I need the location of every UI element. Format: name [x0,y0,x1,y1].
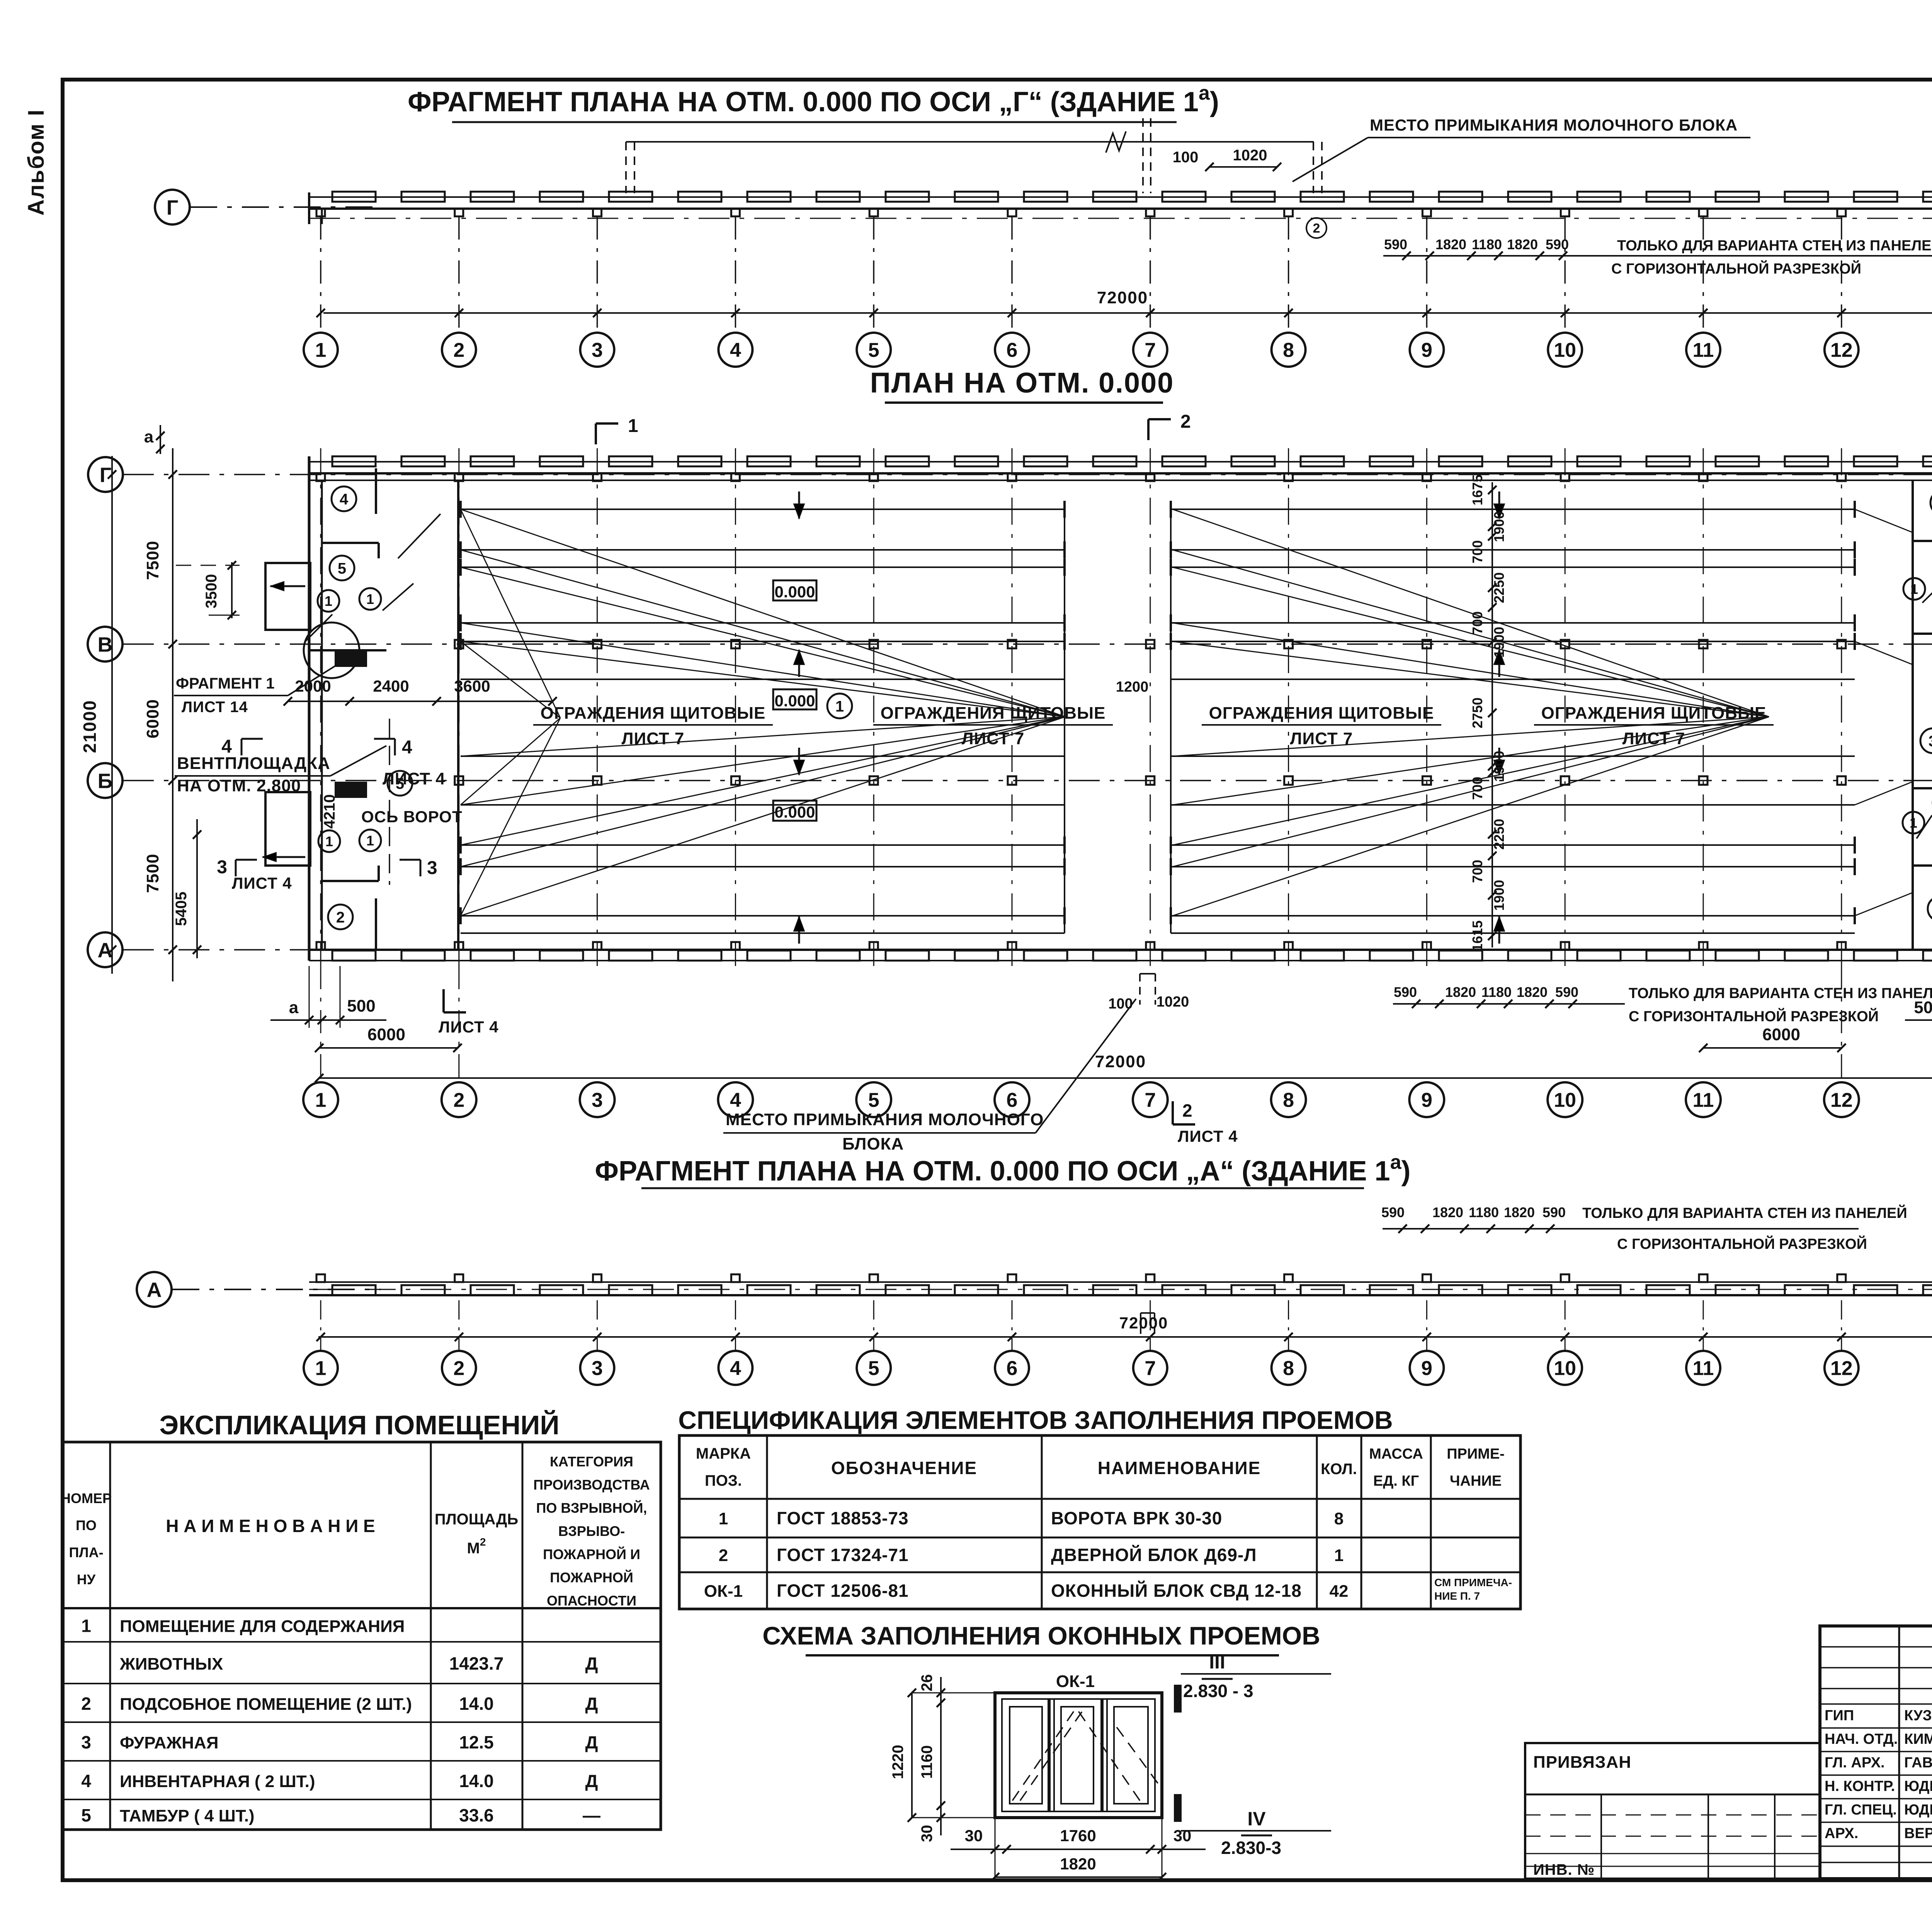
svg-text:1: 1 [835,698,844,715]
svg-text:8: 8 [1283,1089,1294,1112]
svg-text:8: 8 [1334,1509,1344,1528]
svg-text:6000: 6000 [1762,1025,1800,1044]
svg-text:2000: 2000 [295,677,331,695]
svg-text:2400: 2400 [373,677,409,695]
bottom circles 1-13 [303,1082,338,1117]
svg-text:СМ ПРИМЕЧА-: СМ ПРИМЕЧА- [1434,1577,1512,1588]
svg-text:8: 8 [1283,339,1294,362]
svg-text:III: III [1209,1651,1225,1673]
bottom fragment wall strip [309,1281,1932,1283]
svg-text:30: 30 [965,1827,983,1845]
svg-text:1: 1 [1910,815,1917,831]
stall partition lines left half [461,509,1065,510]
svg-text:100: 100 [1173,149,1199,166]
svg-text:С ГОРИЗОНТАЛЬНОЙ РАЗРЕЗКОЙ: С ГОРИЗОНТАЛЬНОЙ РАЗРЕЗКОЙ [1629,1007,1879,1025]
svg-text:1675: 1675 [1469,474,1485,505]
specification table [679,1435,1520,1609]
svg-text:7500: 7500 [143,541,162,580]
svg-text:КУЗНЕЦОВ: КУЗНЕЦОВ [1904,1708,1932,1724]
svg-text:ИНВ. №: ИНВ. № [1533,1861,1595,1878]
svg-text:НА ОТМ. 2.800: НА ОТМ. 2.800 [177,776,301,795]
bottom fragment axis under strip [309,1289,1932,1290]
svg-text:ОСЬ ВОРОТ: ОСЬ ВОРОТ [361,808,463,826]
svg-text:ОГРАЖДЕНИЯ ЩИТОВЫЕ: ОГРАЖДЕНИЯ ЩИТОВЫЕ [881,704,1106,723]
column squares axis B [455,776,463,785]
svg-text:4: 4 [730,1357,741,1380]
svg-text:1900: 1900 [1491,511,1507,542]
svg-text:ПОЗ.: ПОЗ. [705,1472,742,1489]
svg-text:1180: 1180 [1469,1204,1499,1220]
svg-text:ОГРАЖДЕНИЯ ЩИТОВЫЕ: ОГРАЖДЕНИЯ ЩИТОВЫЕ [1209,704,1434,723]
svg-text:ЖИВОТНЫХ: ЖИВОТНЫХ [119,1655,223,1673]
svg-text:ГЛ. АРХ.: ГЛ. АРХ. [1825,1755,1885,1771]
svg-text:А: А [147,1278,162,1301]
svg-text:ЛИСТ 4: ЛИСТ 4 [1178,1127,1238,1145]
svg-text:ГАВРИЛОВ: ГАВРИЛОВ [1904,1755,1932,1771]
svg-text:30: 30 [1173,1827,1192,1845]
explication table [63,1442,661,1830]
bottom fragment dim 72000 [318,1336,1932,1338]
left wall protrusions (tambours) [265,563,310,630]
svg-text:30: 30 [918,1825,935,1842]
svg-text:12: 12 [1830,1357,1853,1380]
axis A circle (bottom fragment) [137,1272,172,1307]
svg-text:a: a [289,998,299,1017]
svg-text:ЛИСТ 4: ЛИСТ 4 [439,1018,499,1036]
svg-text:3: 3 [81,1732,91,1752]
svg-text:0.000: 0.000 [774,692,815,710]
svg-text:ВЕРХОВСКИЙ: ВЕРХОВСКИЙ [1904,1824,1932,1842]
svg-text:2: 2 [719,1546,728,1565]
svg-text:МЕСТО ПРИМЫКАНИЯ МОЛОЧНОГО БЛО: МЕСТО ПРИМЫКАНИЯ МОЛОЧНОГО БЛОКА [1370,116,1738,134]
title block main [1820,1626,1932,1879]
central cross passage verticals [1064,509,1065,933]
column squares axis V [455,640,463,648]
svg-text:ЕД. КГ: ЕД. КГ [1373,1473,1419,1489]
section cut marks top [595,423,597,444]
stall partition lines right half [1171,509,1855,510]
svg-text:1: 1 [366,591,374,607]
svg-text:1: 1 [315,1089,327,1112]
top fragment left corner [308,192,310,224]
axis A line (bottom fragment) [172,1289,381,1290]
svg-text:ЧАНИЕ: ЧАНИЕ [1450,1473,1502,1489]
vertical dim chain between axes 9-10 [1492,482,1493,947]
svg-text:5405: 5405 [173,892,190,926]
svg-text:500: 500 [347,997,375,1015]
svg-text:11: 11 [1693,1089,1714,1112]
section cut marks bottom [442,989,445,1012]
section marks III / IV [1175,1685,1181,1712]
svg-text:4: 4 [730,1089,741,1112]
svg-text:1900: 1900 [1491,627,1507,658]
svg-text:72000: 72000 [1095,1052,1146,1071]
svg-text:12: 12 [1830,339,1853,362]
svg-text:1: 1 [1910,581,1918,597]
svg-text:7500: 7500 [143,854,162,893]
svg-text:НАИМЕНОВАНИЕ: НАИМЕНОВАНИЕ [1098,1458,1261,1478]
svg-text:1900: 1900 [1491,751,1507,782]
interior partition left [457,480,459,950]
svg-text:Альбом I: Альбом I [24,109,49,216]
svg-text:11: 11 [1693,339,1714,362]
title block left rows [1820,1646,1932,1648]
svg-text:1615: 1615 [1469,920,1485,951]
svg-text:7: 7 [1145,1357,1156,1380]
svg-text:ФРАГМЕНТ ПЛАНА НА ОТМ. 0.000 П: ФРАГМЕНТ ПЛАНА НА ОТМ. 0.000 ПО ОСИ „А“ … [595,1151,1411,1187]
svg-text:ПРИМЕ-: ПРИМЕ- [1447,1446,1505,1462]
svg-text:ЮДИН: ЮДИН [1904,1778,1932,1794]
svg-text:1: 1 [315,1357,327,1380]
svg-text:14.0: 14.0 [459,1694,494,1714]
svg-text:1: 1 [325,593,332,609]
svg-text:ТАМБУР ( 4 ШТ.): ТАМБУР ( 4 ШТ.) [120,1806,255,1825]
svg-text:2.830-3: 2.830-3 [1221,1838,1281,1858]
svg-text:33.6: 33.6 [459,1805,494,1825]
svg-text:590: 590 [1394,984,1417,1000]
svg-text:2: 2 [1313,221,1320,236]
svg-text:72000: 72000 [1119,1314,1168,1332]
svg-text:3500: 3500 [203,574,220,609]
svg-text:72000: 72000 [1097,288,1148,307]
svg-text:2750: 2750 [1469,697,1485,728]
svg-text:МАРКА: МАРКА [696,1445,751,1462]
svg-text:700: 700 [1469,860,1485,883]
svg-text:ТОЛЬКО ДЛЯ ВАРИАНТА СТЕН ИЗ ПА: ТОЛЬКО ДЛЯ ВАРИАНТА СТЕН ИЗ ПАНЕЛЕЙ [1629,984,1932,1002]
svg-text:ПОМЕЩЕНИЕ ДЛЯ СОДЕРЖАНИЯ: ПОМЕЩЕНИЕ ДЛЯ СОДЕРЖАНИЯ [120,1617,405,1636]
svg-text:590: 590 [1384,236,1407,252]
top fragment wall strip [309,207,1932,210]
grid extensions to dim line [320,966,321,1082]
svg-text:ПЛАН НА ОТМ. 0.000: ПЛАН НА ОТМ. 0.000 [870,367,1174,399]
svg-text:2: 2 [453,1357,464,1380]
svg-text:КИМ: КИМ [1904,1731,1932,1747]
svg-text:10: 10 [1554,1357,1576,1380]
building outer walls: bottom [309,949,1932,951]
svg-text:100: 100 [1108,996,1133,1012]
svg-text:10: 10 [1554,339,1576,362]
svg-text:14.0: 14.0 [459,1771,494,1791]
svg-text:ОГРАЖДЕНИЯ ЩИТОВЫЕ: ОГРАЖДЕНИЯ ЩИТОВЫЕ [541,704,766,723]
svg-text:2: 2 [1182,1100,1192,1121]
svg-text:ПОЖАРНОЙ И: ПОЖАРНОЙ И [543,1546,640,1562]
svg-text:6: 6 [1007,339,1018,362]
svg-text:9: 9 [1421,1357,1432,1380]
svg-text:6: 6 [1007,1357,1018,1380]
svg-text:9: 9 [1421,1089,1432,1112]
svg-text:КОЛ.: КОЛ. [1321,1461,1357,1478]
left end rooms detail [375,468,377,514]
svg-text:АРХ.: АРХ. [1825,1825,1858,1842]
svg-text:Д: Д [585,1694,598,1714]
svg-text:ИНВЕНТАРНАЯ ( 2 ШТ.): ИНВЕНТАРНАЯ ( 2 ШТ.) [120,1772,315,1791]
svg-text:ПОДСОБНОЕ ПОМЕЩЕНИЕ (2 ШТ.): ПОДСОБНОЕ ПОМЕЩЕНИЕ (2 ШТ.) [120,1695,412,1714]
milk block dashed mark (bottom fragment) [1140,1313,1141,1338]
svg-text:5: 5 [868,1357,879,1380]
svg-text:4210: 4210 [321,794,338,829]
top fragment axis circles 1-13 [320,216,321,333]
svg-text:Г: Г [100,463,112,486]
svg-text:2: 2 [81,1694,91,1714]
milk block connection (top) [626,141,1314,143]
leader fans [461,509,1065,717]
svg-text:БЛОКА: БЛОКА [842,1134,904,1153]
svg-text:590: 590 [1555,984,1578,1000]
svg-text:1820: 1820 [1060,1855,1096,1873]
svg-text:0.000: 0.000 [774,583,815,601]
left axis circles [88,457,123,492]
right end rooms detail [1913,540,1932,542]
svg-text:3: 3 [1929,733,1932,750]
svg-text:2: 2 [1180,412,1191,432]
svg-text:Д: Д [585,1771,598,1791]
svg-text:3: 3 [592,339,603,362]
0.000 level marks [773,580,816,600]
svg-text:700: 700 [1469,540,1485,563]
svg-text:ЛИСТ 14: ЛИСТ 14 [182,699,248,716]
axis G line (top fragment) [190,206,381,208]
svg-text:ГОСТ 17324-71: ГОСТ 17324-71 [777,1545,909,1565]
milk block dashed mark bottom (main plan) [1139,974,1141,1005]
gate leaf marks [335,651,366,666]
svg-text:1820: 1820 [1504,1204,1535,1220]
svg-text:3: 3 [592,1357,603,1380]
small stamp table (left of title block) [1525,1743,1820,1879]
right end room diagonals [1922,580,1932,603]
svg-text:ГОСТ 12506-81: ГОСТ 12506-81 [777,1581,909,1601]
svg-text:1760: 1760 [1060,1827,1096,1845]
svg-text:ОПАСНОСТИ: ОПАСНОСТИ [547,1593,636,1609]
svg-text:1: 1 [81,1616,91,1636]
svg-text:42: 42 [1330,1582,1349,1601]
svg-text:6: 6 [1007,1089,1018,1112]
svg-text:ГОСТ 18853-73: ГОСТ 18853-73 [777,1508,909,1528]
svg-text:1160: 1160 [918,1745,935,1779]
svg-text:В: В [98,633,113,656]
svg-text:1423.7: 1423.7 [449,1653,504,1673]
dim 72000 bottom [319,1077,1932,1079]
svg-text:1820: 1820 [1445,984,1476,1000]
stall row end caps [459,501,462,518]
vertical grid dash-dot lines [320,448,321,966]
svg-text:1180: 1180 [1481,984,1512,1000]
svg-text:ПОЖАРНОЙ: ПОЖАРНОЙ [550,1569,633,1585]
svg-text:Г: Г [167,196,179,219]
svg-text:1: 1 [366,833,374,849]
svg-text:МАССА: МАССА [1369,1446,1423,1462]
svg-text:10: 10 [1554,1089,1576,1112]
svg-text:6000: 6000 [367,1025,405,1044]
svg-text:ОК-1: ОК-1 [704,1582,743,1601]
svg-text:7: 7 [1145,339,1156,362]
svg-text:ВЗРЫВО-: ВЗРЫВО- [558,1523,625,1539]
svg-text:1: 1 [1334,1546,1344,1565]
svg-text:IV: IV [1247,1808,1266,1830]
svg-text:12.5: 12.5 [459,1732,494,1752]
svg-text:1820: 1820 [1435,236,1466,252]
svg-text:1820: 1820 [1507,236,1538,252]
svg-text:НАЧ. ОТД.: НАЧ. ОТД. [1825,1731,1898,1747]
svg-text:ОК-1: ОК-1 [1056,1672,1095,1691]
svg-text:ФРАГМЕНТ ПЛАНА НА ОТМ. 0.000 П: ФРАГМЕНТ ПЛАНА НА ОТМ. 0.000 ПО ОСИ „Г“ … [408,82,1219,117]
svg-text:Н. КОНТР.: Н. КОНТР. [1825,1778,1895,1794]
gate axis detail left (fragment circle) [304,622,359,678]
svg-text:2250: 2250 [1491,819,1507,850]
svg-text:26: 26 [918,1674,935,1692]
svg-text:700: 700 [1469,777,1485,800]
svg-text:5: 5 [868,339,879,362]
svg-text:ГЛ. СПЕЦ.: ГЛ. СПЕЦ. [1825,1802,1897,1818]
svg-text:ГИП: ГИП [1825,1708,1854,1724]
svg-text:3600: 3600 [454,677,490,695]
svg-text:1820: 1820 [1517,984,1548,1000]
building left wall [308,456,311,961]
svg-text:4: 4 [81,1771,91,1791]
svg-text:9: 9 [1421,339,1432,362]
svg-text:5: 5 [81,1805,91,1825]
svg-text:ФУРАЖНАЯ: ФУРАЖНАЯ [120,1733,218,1752]
svg-text:12: 12 [1830,1089,1853,1112]
left vertical dimension lines [111,456,113,974]
svg-text:2.830 - 3: 2.830 - 3 [1183,1681,1253,1701]
svg-text:4: 4 [730,339,741,362]
svg-text:ВОРОТА ВРК 30-30: ВОРОТА ВРК 30-30 [1051,1508,1222,1528]
interior partition right [1912,480,1914,950]
svg-text:1: 1 [719,1509,728,1528]
horizontal axis lines [123,474,1932,475]
svg-text:1020: 1020 [1156,994,1189,1010]
svg-text:7: 7 [1145,1089,1156,1112]
svg-text:—: — [583,1805,600,1825]
svg-text:1: 1 [325,833,333,849]
svg-text:ПЛА-: ПЛА- [69,1544,103,1560]
svg-text:С ГОРИЗОНТАЛЬНОЙ РАЗРЕЗКОЙ: С ГОРИЗОНТАЛЬНОЙ РАЗРЕЗКОЙ [1611,260,1861,277]
svg-text:НИЕ П. 7: НИЕ П. 7 [1434,1590,1480,1602]
svg-text:ПО ВЗРЫВНОЙ,: ПО ВЗРЫВНОЙ, [536,1500,647,1516]
svg-text:700: 700 [1469,611,1485,634]
casement opening dashes [1012,1708,1076,1801]
svg-text:ПРОИЗВОДСТВА: ПРОИЗВОДСТВА [533,1477,650,1493]
svg-text:3: 3 [427,858,437,878]
svg-text:1180: 1180 [1472,236,1502,252]
svg-text:5: 5 [338,560,346,577]
svg-text:a: a [144,427,154,446]
svg-text:ОБОЗНАЧЕНИЕ: ОБОЗНАЧЕНИЕ [831,1458,977,1478]
svg-text:Д: Д [585,1732,598,1752]
svg-text:ЭКСПЛИКАЦИЯ ПОМЕЩЕНИЙ: ЭКСПЛИКАЦИЯ ПОМЕЩЕНИЙ [159,1410,559,1440]
svg-text:Н А И М Е Н О В А Н И Е: Н А И М Е Н О В А Н И Е [166,1516,375,1536]
building outer walls: top [309,472,1932,474]
svg-text:НОМЕР: НОМЕР [61,1490,112,1506]
svg-text:ФРАГМЕНТ 1: ФРАГМЕНТ 1 [176,675,275,692]
svg-text:4: 4 [402,737,412,758]
svg-text:2: 2 [453,339,464,362]
svg-text:3: 3 [592,1089,603,1112]
svg-text:4: 4 [340,491,349,508]
svg-text:С ГОРИЗОНТАЛЬНОЙ РАЗРЕЗКОЙ: С ГОРИЗОНТАЛЬНОЙ РАЗРЕЗКОЙ [1617,1235,1867,1252]
svg-text:СХЕМА ЗАПОЛНЕНИЯ ОКОННЫХ ПРОЕМ: СХЕМА ЗАПОЛНЕНИЯ ОКОННЫХ ПРОЕМОВ [762,1621,1320,1650]
svg-text:1820: 1820 [1432,1204,1463,1220]
svg-text:ТОЛЬКО ДЛЯ ВАРИАНТА СТЕН ИЗ ПА: ТОЛЬКО ДЛЯ ВАРИАНТА СТЕН ИЗ ПАНЕЛЕЙ [1582,1204,1907,1221]
top fragment axis under strip [309,218,1932,219]
top fragment dim line 72000 [323,312,1932,314]
svg-text:590: 590 [1543,1204,1566,1220]
svg-text:1900: 1900 [1491,880,1507,911]
svg-text:ЛИСТ 4: ЛИСТ 4 [232,874,292,892]
svg-text:590: 590 [1381,1204,1405,1220]
svg-text:ВЕНТПЛОЩАДКА: ВЕНТПЛОЩАДКА [177,754,330,773]
svg-text:2: 2 [336,909,345,926]
bottom fragment circles 1-13 [320,1300,321,1350]
svg-text:ПРИВЯЗАН: ПРИВЯЗАН [1533,1753,1631,1772]
svg-text:11: 11 [1693,1357,1714,1380]
svg-text:1200: 1200 [1116,679,1149,695]
svg-text:ЛИСТ 4: ЛИСТ 4 [383,769,446,788]
svg-text:КАТЕГОРИЯ: КАТЕГОРИЯ [550,1454,633,1469]
svg-text:ОКОННЫЙ БЛОК СВД 12-18: ОКОННЫЙ БЛОК СВД 12-18 [1051,1581,1302,1601]
svg-text:НУ: НУ [77,1571,96,1587]
feed passage arrows [798,492,800,519]
svg-text:ПЛОЩАДЬ: ПЛОЩАДЬ [435,1511,518,1528]
svg-text:1220: 1220 [889,1745,906,1779]
svg-text:6000: 6000 [143,699,162,738]
svg-text:1: 1 [628,416,638,436]
svg-text:21000: 21000 [80,700,100,753]
svg-text:СПЕЦИФИКАЦИЯ ЭЛЕМЕНТОВ ЗАПОЛНЕ: СПЕЦИФИКАЦИЯ ЭЛЕМЕНТОВ ЗАПОЛНЕНИЯ ПРОЕМО… [678,1406,1393,1434]
axis G circle (top fragment) [155,190,190,224]
svg-text:5: 5 [868,1089,879,1112]
svg-text:2: 2 [453,1089,464,1112]
svg-text:1020: 1020 [1233,147,1267,164]
door arrows left [270,585,305,587]
svg-text:ЮДИН: ЮДИН [1904,1802,1932,1818]
svg-text:ТОЛЬКО ДЛЯ ВАРИАНТА СТЕН ИЗ ПА: ТОЛЬКО ДЛЯ ВАРИАНТА СТЕН ИЗ ПАНЕЛЕЙ [1617,236,1932,254]
svg-text:ДВЕРНОЙ БЛОК Д69-Л: ДВЕРНОЙ БЛОК Д69-Л [1051,1545,1257,1565]
svg-text:Б: Б [98,769,113,793]
svg-text:3: 3 [217,857,227,878]
svg-text:2250: 2250 [1491,572,1507,603]
svg-text:8: 8 [1283,1357,1294,1380]
svg-text:ПО: ПО [76,1517,97,1533]
svg-text:Д: Д [585,1653,598,1673]
svg-text:1: 1 [315,339,327,362]
